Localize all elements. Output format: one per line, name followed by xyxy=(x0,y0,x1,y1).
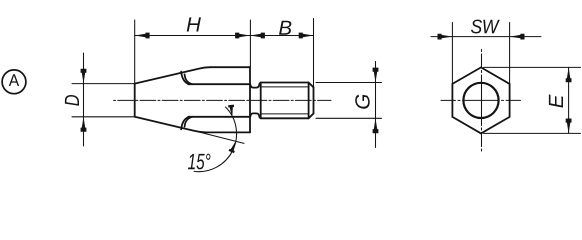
hex flat edge bottom xyxy=(188,116,250,118)
hex silhouette top xyxy=(211,66,251,68)
G extension line bottom xyxy=(316,117,382,119)
SW extension line left xyxy=(451,23,453,84)
hex corner arc lower second xyxy=(185,117,193,127)
label G xyxy=(355,95,370,109)
B extension line right xyxy=(313,19,315,88)
thread root top xyxy=(262,86,310,88)
hex corner arc upper second xyxy=(185,74,193,84)
B arrow right xyxy=(299,33,314,39)
D arrow top xyxy=(81,69,87,84)
B arrow left xyxy=(250,33,265,39)
hex end face xyxy=(249,67,251,132)
end view centerline horizontal xyxy=(441,99,521,101)
end view centerline vertical xyxy=(481,50,483,152)
15 deg arrow upper xyxy=(228,105,235,118)
bore circle xyxy=(463,83,498,118)
label SW xyxy=(471,20,500,34)
D extension line bottom xyxy=(72,116,135,118)
SW extension line right xyxy=(509,23,511,84)
thread crest top xyxy=(261,82,309,84)
G extension line top xyxy=(316,82,382,84)
thread end face xyxy=(313,87,315,113)
label D xyxy=(65,95,79,106)
letter A xyxy=(9,74,19,86)
H arrow right xyxy=(235,33,250,39)
thread root bottom xyxy=(262,113,310,115)
E dimension line xyxy=(568,67,570,133)
thread undercut top xyxy=(250,83,259,87)
G dimension line xyxy=(375,62,377,148)
SW arrow left xyxy=(438,34,453,40)
hexagon xyxy=(452,67,509,133)
label B xyxy=(279,21,291,35)
label 15 deg xyxy=(188,154,210,170)
thread undercut bottom xyxy=(250,113,259,117)
E arrow top xyxy=(566,67,572,82)
view label balloon A xyxy=(2,70,26,94)
cone end face xyxy=(134,84,136,117)
D extension line top xyxy=(72,83,135,85)
G arrow bottom xyxy=(373,118,379,133)
E extension line top xyxy=(484,66,581,68)
H/B extension line middle xyxy=(249,20,251,67)
thread chamfer top diagonal xyxy=(309,83,314,88)
15 deg cone extension line xyxy=(196,131,244,143)
E arrow bottom xyxy=(566,118,572,133)
cone bottom line xyxy=(135,117,207,133)
centerline side view xyxy=(114,99,331,101)
H B dimension line xyxy=(135,35,314,37)
thread crest bottom xyxy=(261,117,309,119)
cone top line xyxy=(135,67,211,83)
label H xyxy=(187,17,201,31)
hex flat edge top xyxy=(188,83,250,85)
thread chamfer edge xyxy=(308,83,310,119)
H arrow left xyxy=(135,33,150,39)
hex silhouette bottom xyxy=(207,131,251,133)
G arrow top xyxy=(373,68,379,83)
E extension line bottom xyxy=(484,132,581,134)
hex corner arc upper xyxy=(181,72,189,85)
D dimension line xyxy=(83,53,85,146)
15 deg arrow lower xyxy=(229,139,239,153)
SW dimension line xyxy=(431,36,541,38)
thread start face xyxy=(260,83,262,119)
hex corner arc lower xyxy=(181,117,189,130)
thread chamfer bottom diagonal xyxy=(309,114,314,119)
label E xyxy=(549,94,563,107)
15 deg angle arc xyxy=(194,107,236,172)
D arrow bottom xyxy=(81,117,87,132)
SW arrow right xyxy=(510,34,525,40)
H extension line left xyxy=(134,20,136,84)
